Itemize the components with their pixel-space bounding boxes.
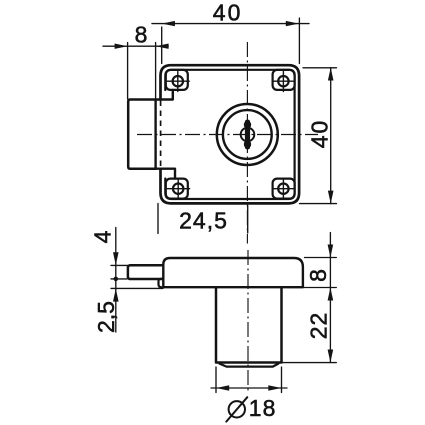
dimension 22: bottom arrow (pointing down): [328, 350, 334, 363]
dimension 8: top arrow (outside, pointing down): [328, 245, 334, 258]
svg-text:40: 40: [213, 0, 243, 26]
key plug circle: [241, 128, 255, 142]
screw hole bottom-left: [173, 184, 183, 194]
dimension 8 / 22 (right): dim line: [329, 233, 331, 363]
screw pad bottom-left: [166, 179, 188, 199]
dimension 8 (top left): dim line: [103, 45, 168, 47]
screw pad top-right: [273, 70, 295, 90]
vertical centre line (side view): [247, 250, 249, 391]
dimension 4: top arrow (outside, pointing down): [113, 252, 119, 265]
left extension lines: [111, 265, 163, 288]
bolt top edge step to pad: [156, 90, 173, 100]
svg-text:22: 22: [306, 312, 332, 340]
screw hole bottom-right: [278, 184, 288, 194]
svg-text:40: 40: [306, 119, 332, 149]
shared arrow pointing up at slab bottom: [328, 288, 334, 301]
screw pad top-left: [166, 70, 188, 90]
cylinder outer circle (top view): [217, 104, 278, 165]
dimension 8 (top left): extension lines: [128, 43, 156, 100]
plate slab (side view): [163, 258, 303, 287]
cylinder bottom chamfer lip: [220, 364, 279, 367]
plate inner rim line (top view): [165, 70, 294, 199]
dimension Ø18: right arrow: [268, 385, 281, 390]
bolt guide tab under slab: [159, 279, 164, 287]
hidden plate edge behind bolt (dashed): [160, 101, 162, 169]
screw hole top-left: [173, 76, 183, 86]
key slot: [245, 120, 250, 150]
dimension 40 (right of top view): dim line: [330, 68, 332, 204]
svg-text:4: 4: [89, 230, 115, 243]
svg-text:18: 18: [249, 395, 277, 421]
bolt slot mouth edge: [154, 100, 156, 169]
latch bolt (side view): [128, 265, 163, 279]
dimension 40 (right): extension lines: [300, 68, 337, 204]
horizontal centre line (top view): [137, 134, 318, 136]
cylinder body (side view): [216, 287, 282, 362]
svg-text:8: 8: [305, 269, 331, 282]
dimension 24,5: extension lines: [158, 204, 248, 234]
dimension 40 (right): top arrow: [328, 68, 334, 81]
dimension 2,5: bottom arrow (outside, pointing up): [113, 289, 119, 302]
cylinder inner circle (top view): [223, 110, 272, 159]
screw pad bottom-right: [273, 179, 295, 199]
dimension 4 / 2,5 (left): dim line: [115, 228, 117, 333]
dimension Ø18: left arrow: [216, 385, 229, 390]
dimension Ø18: dim line: [211, 387, 287, 389]
dimension 40 (top): right arrow: [286, 21, 299, 26]
latch bolt (top view): [128, 100, 155, 169]
dimension 40 (top): extension lines: [162, 18, 300, 64]
dimension 8 (top left): arrows (outside): [115, 44, 128, 49]
svg-text:8: 8: [135, 21, 148, 47]
bolt bottom edge step to pad: [156, 169, 175, 179]
merged arrow tips dot: [114, 277, 119, 282]
dimension 40 (top): left arrow: [162, 21, 175, 26]
right extension lines: [283, 258, 336, 363]
svg-text:2,5: 2,5: [93, 301, 119, 333]
vertical centre line (top view): [246, 42, 248, 244]
dimension 40 (right): bottom arrow: [328, 191, 334, 204]
lock case outer plate outline (top view): [161, 65, 300, 203]
svg-text:24,5: 24,5: [179, 207, 228, 233]
dimension Ø18: extension lines: [216, 367, 282, 393]
dimension 40 (top): dim line: [152, 23, 309, 25]
screw hole top-right: [278, 76, 288, 86]
diameter symbol Ø: [229, 401, 245, 417]
